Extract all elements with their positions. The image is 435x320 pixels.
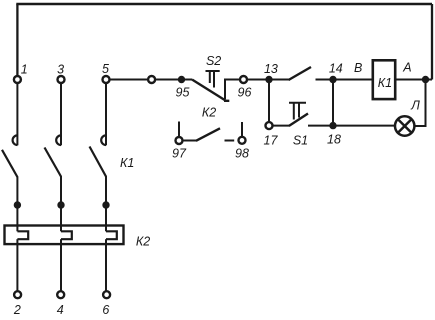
stop pushbutton S2 / K2 trip contact (NC), moving contact — [192, 80, 229, 101]
svg-text:S1: S1 — [293, 134, 308, 148]
wire: top bus — [16, 3, 432, 6]
wire: pole 3 moving contact to junction — [105, 176, 107, 231]
terminal 98 — [239, 137, 246, 144]
contact K2 auxiliary NO (97-98) — [179, 122, 242, 141]
svg-text:17: 17 — [264, 134, 279, 148]
svg-text:4: 4 — [57, 303, 64, 317]
terminal 17 — [266, 122, 273, 129]
svg-text:В: В — [354, 61, 362, 75]
svg-text:13: 13 — [264, 62, 278, 76]
svg-text:14: 14 — [329, 61, 343, 75]
contactor K1 main contact, pole 1 — [2, 135, 17, 177]
node A — [422, 76, 429, 83]
svg-text:2: 2 — [13, 303, 21, 317]
wire: S1 fixed contact to lamp — [308, 125, 394, 127]
svg-text:К1: К1 — [120, 156, 134, 170]
svg-text:3: 3 — [57, 63, 64, 77]
K2 heater element pole 2 — [61, 231, 72, 239]
svg-text:98: 98 — [235, 147, 249, 161]
contact K1 auxiliary NO (13-14) — [269, 67, 333, 80]
K2 heater element pole 3 — [106, 231, 117, 239]
junction dot pole 1 — [14, 201, 21, 208]
node 13 — [265, 76, 272, 83]
svg-text:6: 6 — [102, 303, 109, 317]
wire: NC fixed contact to terminal 96 — [225, 80, 240, 100]
wire: heater pole 1 to terminal 2 — [16, 239, 18, 291]
wire: pole 1 from terminal 1 down to fixed contact — [16, 84, 18, 146]
wire: pole 3 from terminal 5 down to fixed contact — [105, 84, 107, 146]
svg-text:А: А — [402, 60, 411, 74]
signal lamp Л — [395, 116, 414, 135]
wire: terminal 5 to connector terminal — [110, 79, 148, 81]
terminal 2 — [14, 291, 21, 298]
junction dot pole 2 — [57, 201, 64, 208]
wire: pole 2 from terminal 3 down to fixed contact — [60, 84, 62, 146]
terminal 6 — [103, 291, 110, 298]
thermal overload relay K2 housing — [5, 226, 124, 245]
svg-text:К2: К2 — [136, 235, 150, 249]
wire: heater pole 2 to terminal 4 — [60, 239, 62, 291]
junction dot pole 3 — [102, 201, 109, 208]
node 95 — [178, 76, 185, 83]
terminal 96 — [240, 76, 247, 83]
wire: pole 1 moving contact to junction — [16, 177, 18, 232]
svg-text:96: 96 — [238, 85, 252, 99]
wire: pole 2 moving contact to junction — [60, 176, 62, 231]
terminal 4 — [57, 291, 64, 298]
svg-text:18: 18 — [327, 133, 341, 147]
wire: left riser from terminal 1 to top bus — [16, 4, 18, 76]
contactor K1 main contact, pole 2 — [45, 135, 62, 176]
wire: coil K1 to right riser — [396, 79, 432, 81]
connector terminal (unnumbered) — [148, 76, 155, 83]
S2 pushbutton actuator — [206, 71, 220, 88]
wire: terminal 96 to node 13 — [248, 79, 270, 81]
svg-text:1: 1 — [21, 63, 28, 77]
K2 heater element pole 1 — [17, 231, 28, 239]
wire: node 14 down to node 18 — [332, 83, 334, 122]
terminal 1 — [14, 76, 21, 83]
svg-text:Л: Л — [410, 99, 420, 113]
svg-text:К1: К1 — [378, 76, 392, 90]
S1 pushbutton actuator — [289, 103, 306, 120]
wire: node 13 down to terminal 17 — [268, 83, 270, 122]
start pushbutton S1 (NO), moving contact — [273, 114, 308, 126]
svg-text:5: 5 — [102, 62, 109, 76]
svg-text:95: 95 — [176, 85, 190, 99]
terminal 5 — [103, 76, 110, 83]
wire: connector to node 95 — [156, 79, 193, 81]
node 14 — [329, 76, 336, 83]
coil K1 — [373, 60, 395, 99]
svg-text:97: 97 — [172, 147, 187, 161]
wire: lamp to node A — [415, 80, 425, 127]
node 18 — [329, 122, 336, 129]
svg-text:К2: К2 — [202, 105, 216, 119]
wire: right riser from top bus down to node A — [431, 4, 433, 80]
contactor K1 main contact, pole 3 — [90, 135, 107, 176]
wire: node 14 to coil K1, node B — [333, 79, 372, 81]
wire: heater pole 3 to terminal 6 — [105, 239, 107, 291]
terminal 3 — [58, 76, 65, 83]
svg-text:S2: S2 — [206, 54, 221, 68]
terminal 97 — [176, 137, 183, 144]
